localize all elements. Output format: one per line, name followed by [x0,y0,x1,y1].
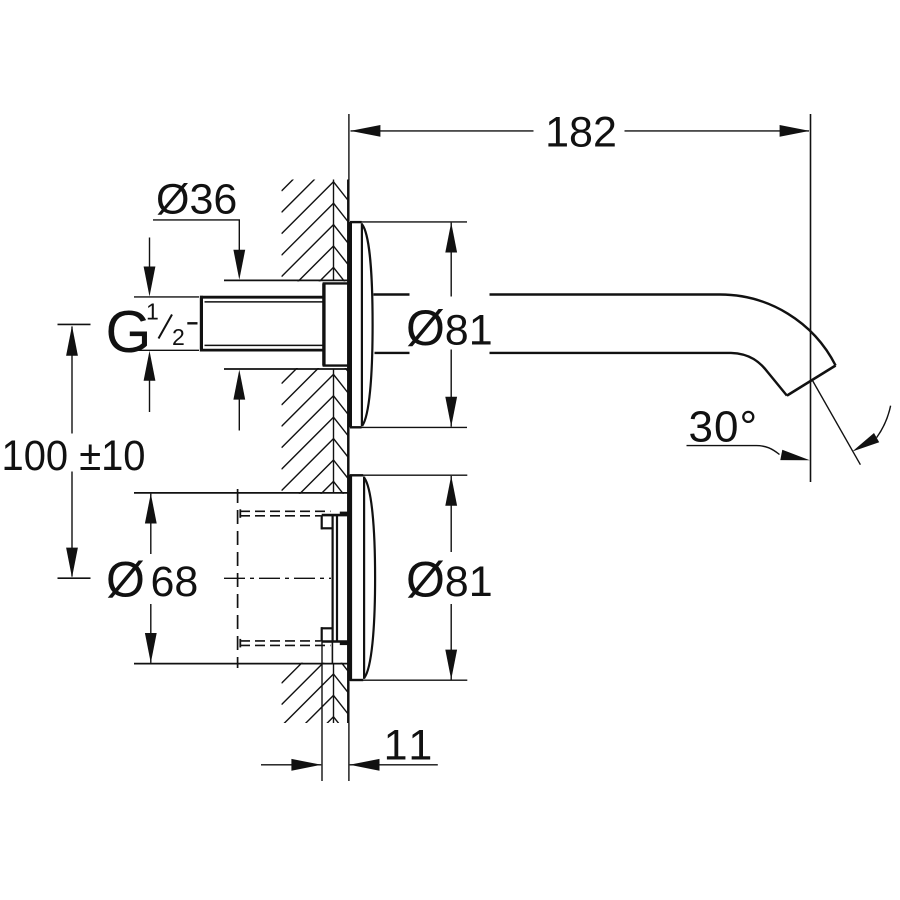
dim O68: dimension line + arrows [150,494,152,554]
dim 11: extension line right (wall face, down) [348,723,350,781]
wall hole bottom edge / O36 extension [224,368,348,370]
svg-text:Ø: Ø [406,552,445,608]
wall hole top edge / O36 extension [224,279,348,281]
top clip [321,515,323,529]
plate top edge [350,474,363,476]
svg-text:Ø: Ø [406,300,445,356]
box bottom wall (double dashed) [240,644,331,646]
svg-text:68: 68 [151,558,199,606]
svg-text:11: 11 [384,721,437,769]
centerline of sensor unit (dash-dot) [224,577,331,579]
dim 182: dimension line with arrows [351,130,534,132]
tile band border line [333,180,335,724]
top rosette top edge [350,221,362,223]
bottom clip [321,627,323,641]
plate back edge [349,475,352,680]
G1/2 OD: extension lines [134,296,199,298]
dim O81 bottom: dimension line + arrows [450,476,452,552]
svg-text:100 ±10: 100 ±10 [2,432,146,480]
svg-text:81: 81 [445,306,493,354]
30deg: leader underline + curve + arrow [687,445,757,447]
box front rim below frame [331,642,333,664]
hole in wall for concealed box (mask) [281,494,348,663]
G1/2 OD: bottom arrow [144,351,156,381]
plate bottom edge [350,679,363,681]
dim 11: dimension line + arrows [261,764,321,766]
sensor frame verticals [332,515,334,641]
G1/2 threaded pipe outline [200,296,323,299]
dim O36: bottom arrow [233,370,245,400]
dim 100+-10: end ticks [58,323,91,325]
dim O81 top: dimension line + arrows [450,223,452,297]
sensor frame top edge [322,514,349,517]
box top wall (double dashed) [240,510,331,512]
box top wall thick stub at wall [340,512,348,516]
wall tile layer hatch (steep) [334,118,349,757]
dim 100+-10: dimension line [71,327,73,434]
spout bottom outline [490,353,787,396]
svg-text:Ø: Ø [106,552,145,608]
dim O81 bottom: extension lines [349,474,467,476]
plate dome profile [364,478,375,678]
box hole bottom edge / O68 extension [134,663,348,665]
box bottom wall thick stub at wall [340,641,348,645]
dim O36: top arrow [233,250,245,280]
svg-text:30°: 30° [689,402,759,451]
svg-text:Ø36: Ø36 [156,176,237,224]
dim 11: extension line left (frame back) [321,642,323,782]
spout bottom line (stub at rosette) [375,352,410,354]
pipe thread inner lines [205,301,323,303]
dim O36: leader underline + drop [153,219,240,221]
30deg: slant reference line [812,380,860,465]
wall plaster hatch (wide 45deg) [282,118,334,791]
30deg: arc arrow [877,406,891,438]
box hole top edge / O68 extension [134,492,348,494]
sensor frame bottom edge [322,640,349,643]
top rosette back edge [349,222,352,427]
svg-text:182: 182 [545,109,617,157]
svg-text:1: 1 [146,298,159,324]
svg-text:81: 81 [445,558,493,606]
spout top outline [490,295,836,366]
G1/2 OD: top arrow [149,238,151,269]
svg-text:2: 2 [172,324,185,350]
dim 182: extension line right (spout tip vertical) [810,114,812,482]
dim 182: extension line left (wall face, up) [348,114,350,180]
top rosette bottom edge [350,426,362,428]
spout top line (stub at rosette) [374,293,410,295]
top rosette rim [361,223,363,426]
top rosette dome profile [362,225,372,426]
dim O81 top: extension lines [351,221,467,223]
wall front face line [347,180,350,724]
spout outlet cut face [787,366,836,396]
mounting flange body [322,283,325,365]
concealed box left edge (dashed) [237,489,239,668]
hole in wall for spout pipe (mask) [281,281,348,368]
plate rim [363,477,365,679]
svg-text:G: G [106,299,152,365]
